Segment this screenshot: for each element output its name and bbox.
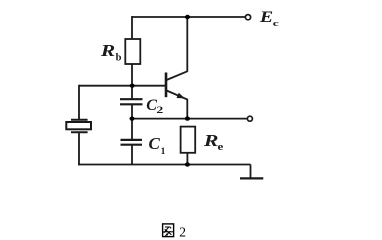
wire Rb top lead — [131, 16, 133, 39]
svg-text:e: e — [218, 141, 224, 152]
transistor Q1 base bar — [165, 73, 168, 98]
svg-text:R: R — [100, 42, 116, 60]
wire ground drop — [250, 165, 252, 179]
svg-text:E: E — [259, 8, 273, 26]
crystal Y1 — [66, 120, 91, 133]
label Re — [203, 132, 223, 152]
label Rb — [100, 42, 122, 63]
terminal Ec — [245, 15, 250, 20]
svg-text:2: 2 — [156, 104, 163, 115]
terminal output — [247, 116, 252, 121]
wire C2 to mid node — [131, 104, 133, 118]
wire crystal top lead — [78, 85, 80, 120]
svg-text:1: 1 — [161, 147, 166, 157]
transistor Q1 emitter — [167, 91, 187, 100]
wire bottom rail — [78, 164, 250, 166]
label Ec — [259, 8, 279, 28]
svg-text:R: R — [203, 132, 219, 150]
capacitor C1 — [121, 140, 143, 145]
svg-text:2: 2 — [179, 224, 186, 239]
transistor Q1 collector — [167, 71, 188, 80]
transistor Q1 emitter arrow — [177, 93, 185, 99]
ground — [240, 177, 263, 179]
caption figure 2 glyph tu — [163, 224, 174, 237]
wire Rb bottom lead — [131, 64, 133, 87]
svg-text:c: c — [273, 19, 279, 28]
wire crystal bottom lead — [78, 132, 80, 165]
svg-text:C: C — [149, 134, 161, 153]
wire mid rail to output — [131, 118, 247, 120]
node mid-left junction — [130, 117, 135, 121]
label C1 — [149, 134, 166, 157]
resistor Re — [181, 127, 196, 153]
node top junction — [185, 15, 190, 19]
wire Re bottom lead — [186, 153, 188, 165]
capacitor C2 — [120, 99, 143, 104]
node Re bottom junction — [185, 162, 190, 166]
label C2 — [146, 97, 163, 116]
svg-text:b: b — [116, 52, 122, 63]
wire top rail — [131, 16, 246, 18]
node base junction — [130, 84, 135, 88]
wire C1 bottom lead — [131, 145, 133, 165]
wire base rail — [79, 85, 166, 87]
resistor Rb — [125, 39, 140, 64]
wire C1 top lead — [131, 119, 133, 140]
node emitter junction — [185, 116, 190, 120]
wire collector up — [186, 17, 188, 72]
wire C2 top lead — [131, 86, 133, 99]
wire emitter down — [186, 99, 188, 119]
